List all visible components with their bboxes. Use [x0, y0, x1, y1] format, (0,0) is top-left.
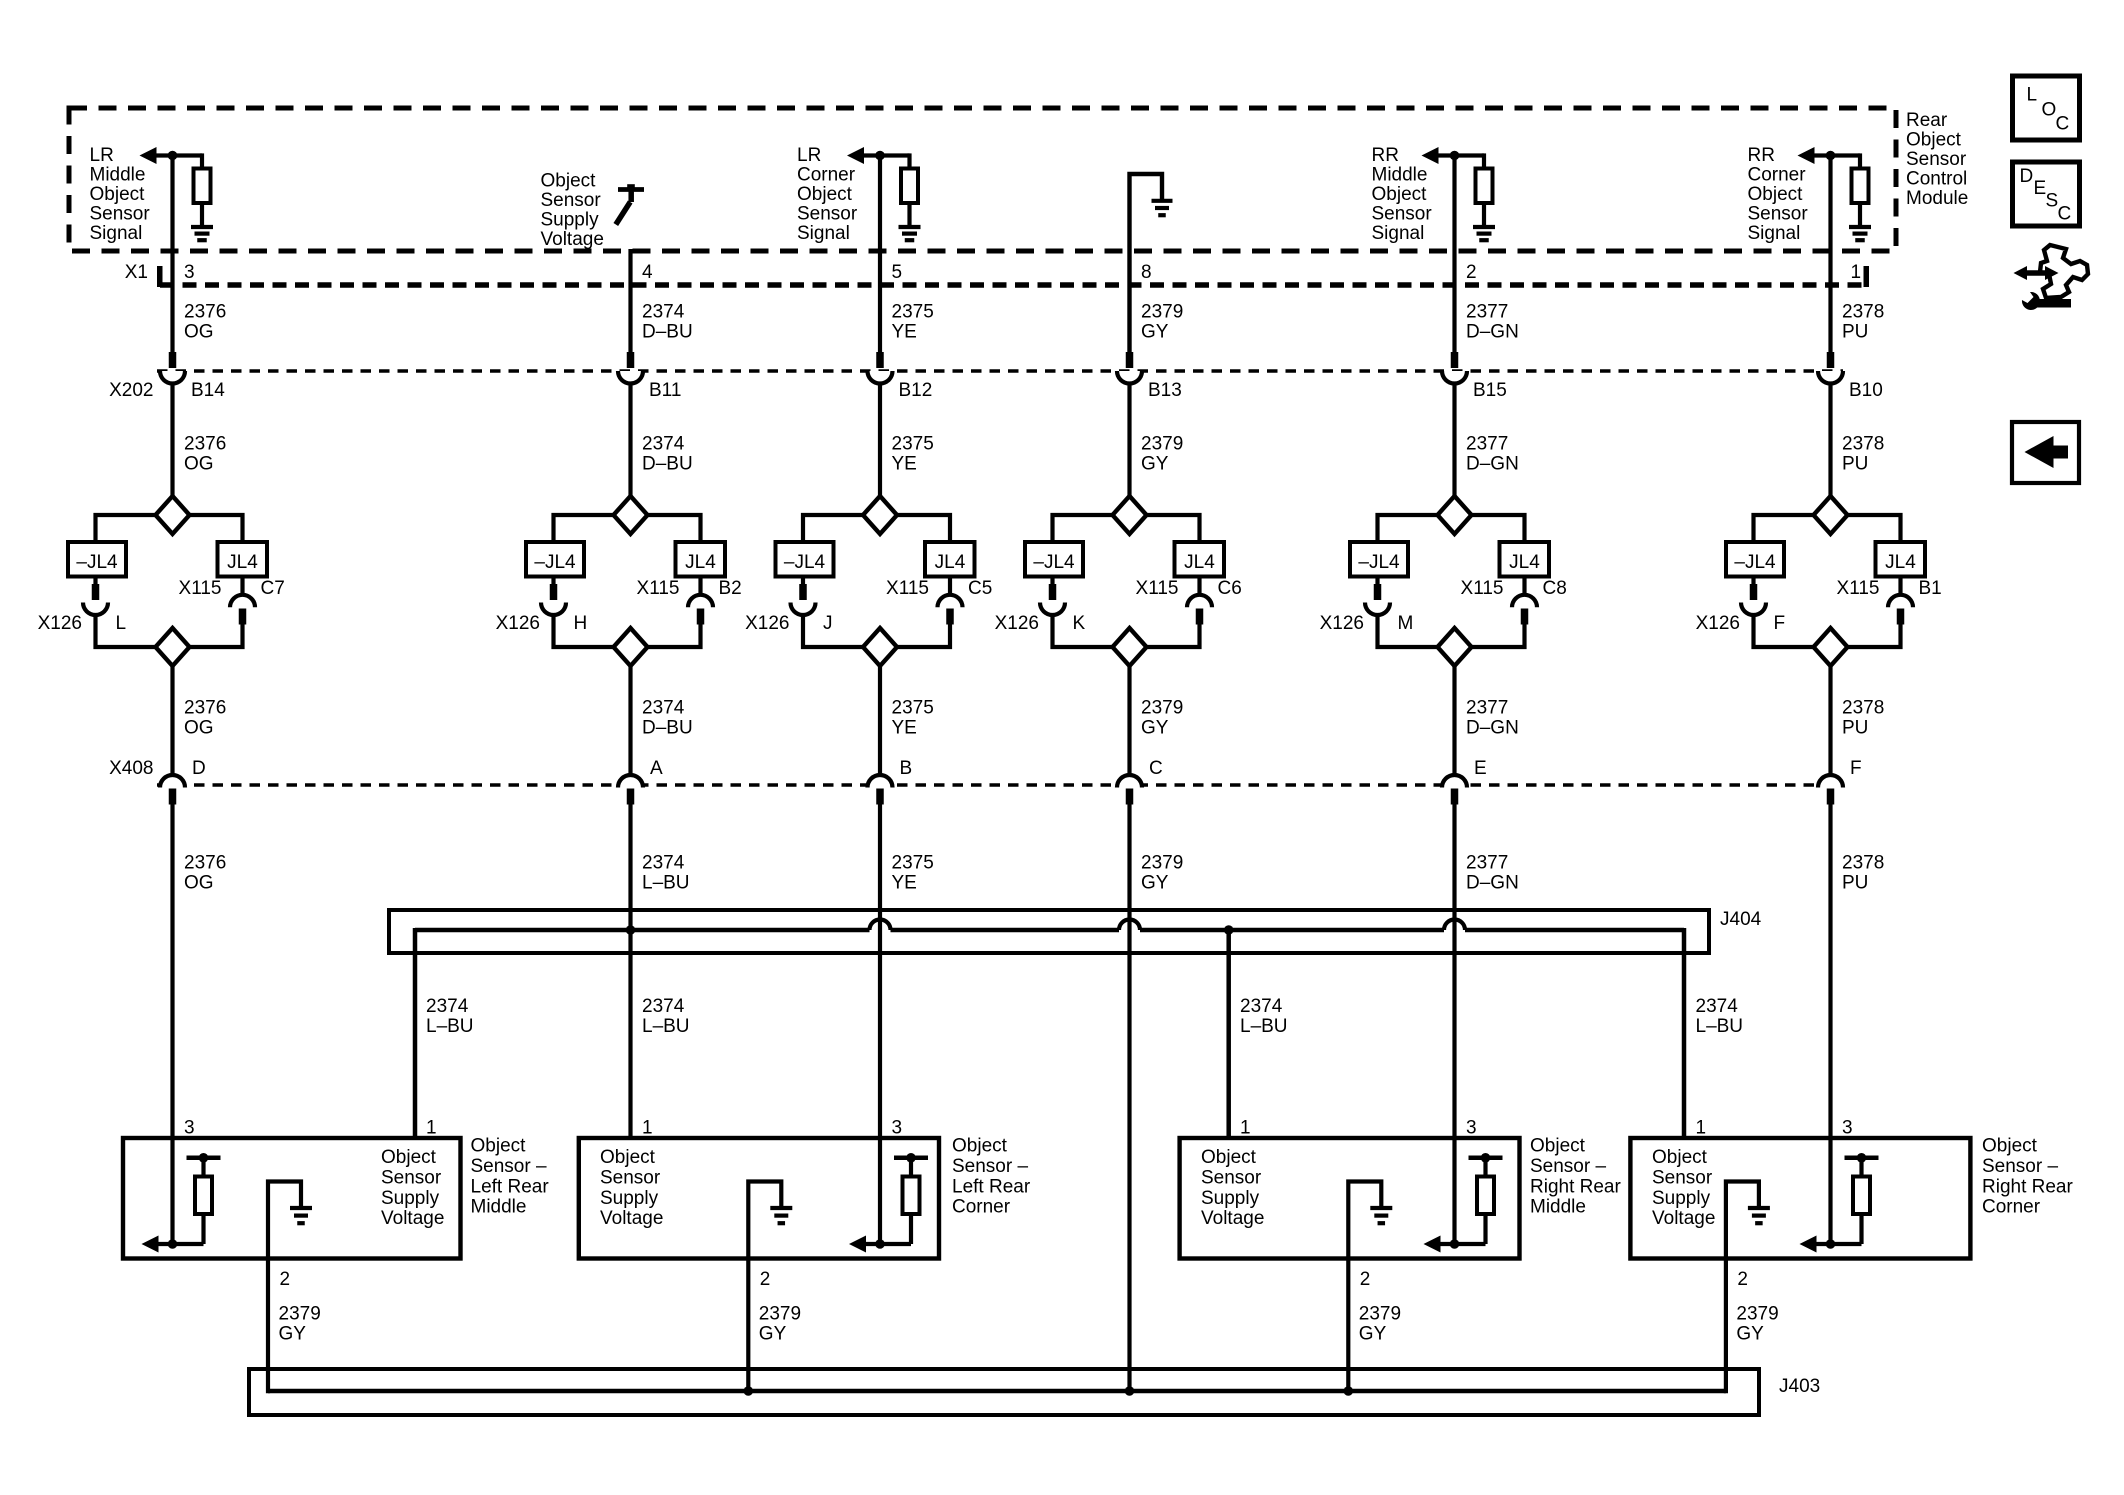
- svg-text:D: D: [192, 758, 206, 779]
- svg-text:–JL4: –JL4: [784, 552, 826, 573]
- svg-text:Signal: Signal: [797, 223, 850, 244]
- svg-text:LR: LR: [90, 145, 114, 166]
- svg-text:Middle: Middle: [1372, 165, 1428, 186]
- svg-text:C6: C6: [1218, 578, 1242, 599]
- svg-text:Middle: Middle: [90, 165, 146, 186]
- svg-text:Supply: Supply: [541, 210, 600, 231]
- svg-text:GY: GY: [1141, 322, 1169, 343]
- svg-text:B15: B15: [1473, 380, 1507, 401]
- svg-text:C7: C7: [261, 578, 285, 599]
- svg-text:2375: 2375: [892, 434, 934, 455]
- svg-text:Object: Object: [952, 1136, 1008, 1157]
- svg-text:J: J: [823, 613, 833, 634]
- svg-text:Signal: Signal: [1372, 223, 1425, 244]
- svg-text:Supply: Supply: [600, 1188, 659, 1209]
- svg-text:L–BU: L–BU: [1240, 1016, 1288, 1037]
- svg-text:–JL4: –JL4: [1734, 552, 1776, 573]
- svg-text:Sensor: Sensor: [1748, 204, 1809, 225]
- svg-text:D–GN: D–GN: [1466, 454, 1519, 475]
- svg-text:Corner: Corner: [1982, 1197, 2041, 1218]
- svg-text:Module: Module: [1906, 188, 1968, 209]
- svg-text:2374: 2374: [426, 996, 469, 1017]
- svg-text:JL4: JL4: [935, 552, 966, 573]
- svg-text:GY: GY: [1141, 454, 1169, 475]
- svg-text:E: E: [1474, 758, 1487, 779]
- svg-text:RR: RR: [1748, 145, 1775, 166]
- svg-text:X202: X202: [109, 380, 153, 401]
- svg-text:JL4: JL4: [1885, 552, 1916, 573]
- svg-text:Sensor: Sensor: [1652, 1167, 1713, 1188]
- svg-text:Object: Object: [600, 1147, 656, 1168]
- svg-text:Supply: Supply: [1201, 1188, 1260, 1209]
- svg-text:B: B: [900, 758, 913, 779]
- svg-text:Object: Object: [797, 184, 853, 205]
- svg-text:B1: B1: [1919, 578, 1942, 599]
- svg-text:4: 4: [642, 262, 653, 283]
- svg-text:Corner: Corner: [797, 165, 856, 186]
- svg-text:2378: 2378: [1842, 698, 1884, 719]
- svg-text:X126: X126: [745, 613, 789, 634]
- svg-text:F: F: [1774, 613, 1786, 634]
- svg-text:Supply: Supply: [381, 1188, 440, 1209]
- svg-text:H: H: [574, 613, 588, 634]
- svg-text:D–BU: D–BU: [642, 718, 693, 739]
- svg-text:D–BU: D–BU: [642, 454, 693, 475]
- svg-text:2374: 2374: [642, 698, 685, 719]
- svg-text:X126: X126: [1696, 613, 1740, 634]
- svg-text:2379: 2379: [1141, 302, 1183, 323]
- svg-text:C: C: [1149, 758, 1163, 779]
- svg-text:Sensor: Sensor: [797, 204, 858, 225]
- svg-text:J403: J403: [1779, 1376, 1820, 1397]
- svg-text:LR: LR: [797, 145, 821, 166]
- svg-text:Sensor –: Sensor –: [1982, 1156, 2058, 1177]
- svg-text:2374: 2374: [642, 853, 685, 874]
- svg-text:Sensor: Sensor: [381, 1167, 442, 1188]
- svg-text:S: S: [2046, 191, 2059, 212]
- svg-text:–JL4: –JL4: [1033, 552, 1075, 573]
- svg-text:E: E: [2034, 178, 2047, 199]
- svg-text:PU: PU: [1842, 718, 1868, 739]
- svg-text:2377: 2377: [1466, 434, 1508, 455]
- svg-text:Object: Object: [1201, 1147, 1257, 1168]
- svg-text:GY: GY: [279, 1324, 307, 1345]
- svg-text:OG: OG: [184, 873, 214, 894]
- svg-text:2376: 2376: [184, 302, 226, 323]
- svg-text:2379: 2379: [279, 1304, 321, 1325]
- svg-text:A: A: [650, 758, 663, 779]
- svg-text:OG: OG: [184, 454, 214, 475]
- svg-text:Left Rear: Left Rear: [952, 1176, 1031, 1197]
- svg-text:Signal: Signal: [90, 223, 143, 244]
- svg-text:X115: X115: [179, 578, 222, 599]
- svg-text:D–GN: D–GN: [1466, 718, 1519, 739]
- svg-text:Supply: Supply: [1652, 1188, 1711, 1209]
- svg-text:Object: Object: [381, 1147, 437, 1168]
- svg-text:O: O: [2042, 100, 2057, 121]
- svg-text:X115: X115: [1136, 578, 1179, 599]
- svg-text:Middle: Middle: [1530, 1197, 1586, 1218]
- svg-text:B12: B12: [899, 380, 933, 401]
- svg-text:D–GN: D–GN: [1466, 322, 1519, 343]
- svg-text:Right Rear: Right Rear: [1530, 1176, 1621, 1197]
- svg-text:Sensor: Sensor: [1201, 1167, 1262, 1188]
- svg-text:K: K: [1073, 613, 1086, 634]
- svg-text:Object: Object: [1982, 1136, 2038, 1157]
- svg-text:X115: X115: [1461, 578, 1504, 599]
- svg-text:YE: YE: [892, 322, 917, 343]
- svg-text:5: 5: [892, 262, 903, 283]
- svg-text:J404: J404: [1720, 909, 1762, 930]
- svg-text:M: M: [1398, 613, 1414, 634]
- svg-text:YE: YE: [892, 718, 917, 739]
- svg-text:2377: 2377: [1466, 302, 1508, 323]
- svg-text:RR: RR: [1372, 145, 1399, 166]
- svg-text:Object: Object: [1530, 1136, 1586, 1157]
- svg-text:Sensor: Sensor: [600, 1167, 661, 1188]
- svg-text:OG: OG: [184, 322, 214, 343]
- svg-text:X1: X1: [125, 262, 148, 283]
- svg-text:Voltage: Voltage: [1201, 1208, 1264, 1229]
- svg-text:3: 3: [1842, 1118, 1853, 1139]
- svg-text:B13: B13: [1148, 380, 1182, 401]
- svg-text:2374: 2374: [642, 434, 685, 455]
- svg-text:Object: Object: [1906, 130, 1962, 151]
- svg-text:YE: YE: [892, 454, 917, 475]
- svg-text:2: 2: [760, 1269, 771, 1290]
- svg-text:1: 1: [1851, 262, 1862, 283]
- svg-text:Signal: Signal: [1748, 223, 1801, 244]
- svg-text:2: 2: [1360, 1269, 1371, 1290]
- svg-text:C: C: [2058, 204, 2072, 225]
- svg-text:GY: GY: [1359, 1324, 1387, 1345]
- svg-text:Sensor: Sensor: [90, 204, 151, 225]
- svg-text:2: 2: [1737, 1269, 1748, 1290]
- svg-text:OG: OG: [184, 718, 214, 739]
- svg-text:2378: 2378: [1842, 302, 1884, 323]
- svg-text:C: C: [2056, 114, 2070, 135]
- svg-text:L–BU: L–BU: [426, 1016, 474, 1037]
- svg-text:GY: GY: [1141, 873, 1169, 894]
- svg-text:1: 1: [642, 1118, 653, 1139]
- svg-text:Voltage: Voltage: [1652, 1208, 1715, 1229]
- svg-text:GY: GY: [759, 1324, 787, 1345]
- svg-text:Object: Object: [471, 1136, 527, 1157]
- svg-text:JL4: JL4: [1509, 552, 1540, 573]
- svg-text:X126: X126: [38, 613, 82, 634]
- svg-text:B11: B11: [649, 380, 681, 401]
- svg-text:PU: PU: [1842, 322, 1868, 343]
- svg-text:JL4: JL4: [1184, 552, 1215, 573]
- svg-text:–JL4: –JL4: [1358, 552, 1400, 573]
- svg-text:2: 2: [280, 1269, 291, 1290]
- svg-text:8: 8: [1141, 262, 1152, 283]
- svg-text:3: 3: [892, 1118, 903, 1139]
- svg-text:Right Rear: Right Rear: [1982, 1176, 2073, 1197]
- svg-text:3: 3: [1466, 1118, 1477, 1139]
- svg-text:Sensor –: Sensor –: [1530, 1156, 1606, 1177]
- svg-text:2379: 2379: [1736, 1304, 1778, 1325]
- svg-text:Sensor: Sensor: [1906, 149, 1967, 170]
- svg-text:C8: C8: [1543, 578, 1567, 599]
- svg-text:3: 3: [184, 1118, 195, 1139]
- svg-text:Rear: Rear: [1906, 110, 1948, 131]
- svg-text:Left Rear: Left Rear: [471, 1176, 550, 1197]
- svg-text:PU: PU: [1842, 454, 1868, 475]
- svg-text:X126: X126: [995, 613, 1039, 634]
- svg-text:X115: X115: [637, 578, 680, 599]
- svg-text:2375: 2375: [892, 853, 934, 874]
- svg-text:3: 3: [184, 262, 195, 283]
- svg-text:2379: 2379: [1141, 698, 1183, 719]
- svg-text:C5: C5: [968, 578, 992, 599]
- svg-text:L: L: [2027, 85, 2038, 106]
- svg-text:GY: GY: [1736, 1324, 1764, 1345]
- svg-text:Middle: Middle: [471, 1197, 527, 1218]
- svg-text:Sensor: Sensor: [1372, 204, 1433, 225]
- svg-text:2379: 2379: [1141, 434, 1183, 455]
- svg-text:Object: Object: [1372, 184, 1428, 205]
- svg-text:2374: 2374: [642, 996, 685, 1017]
- svg-text:2377: 2377: [1466, 853, 1508, 874]
- svg-text:2378: 2378: [1842, 434, 1884, 455]
- svg-text:2374: 2374: [1240, 996, 1283, 1017]
- svg-text:2375: 2375: [892, 302, 934, 323]
- svg-text:2379: 2379: [759, 1304, 801, 1325]
- svg-text:F: F: [1850, 758, 1862, 779]
- svg-text:2: 2: [1466, 262, 1477, 283]
- svg-text:X408: X408: [109, 758, 153, 779]
- svg-text:–JL4: –JL4: [76, 552, 118, 573]
- svg-text:X126: X126: [496, 613, 540, 634]
- svg-text:1: 1: [1240, 1118, 1251, 1139]
- svg-text:Corner: Corner: [1748, 165, 1807, 186]
- svg-text:B2: B2: [719, 578, 742, 599]
- svg-text:L–BU: L–BU: [642, 873, 690, 894]
- svg-text:Sensor –: Sensor –: [471, 1156, 547, 1177]
- svg-text:Control: Control: [1906, 169, 1967, 190]
- svg-text:1: 1: [426, 1118, 437, 1139]
- svg-text:2376: 2376: [184, 698, 226, 719]
- svg-text:Object: Object: [90, 184, 146, 205]
- svg-text:L–BU: L–BU: [642, 1016, 690, 1037]
- svg-text:D–BU: D–BU: [642, 322, 693, 343]
- svg-text:PU: PU: [1842, 873, 1868, 894]
- svg-text:Voltage: Voltage: [600, 1208, 663, 1229]
- svg-text:2374: 2374: [1696, 996, 1739, 1017]
- svg-text:1: 1: [1696, 1118, 1707, 1139]
- svg-text:Voltage: Voltage: [381, 1208, 444, 1229]
- svg-text:L: L: [116, 613, 127, 634]
- svg-text:2379: 2379: [1141, 853, 1183, 874]
- svg-text:Object: Object: [541, 171, 597, 192]
- svg-text:Object: Object: [1748, 184, 1804, 205]
- svg-text:YE: YE: [892, 873, 917, 894]
- svg-text:2379: 2379: [1359, 1304, 1401, 1325]
- svg-text:Voltage: Voltage: [541, 229, 604, 250]
- svg-text:JL4: JL4: [685, 552, 716, 573]
- svg-text:2377: 2377: [1466, 698, 1508, 719]
- svg-text:B14: B14: [191, 380, 225, 401]
- svg-text:Sensor: Sensor: [541, 190, 602, 211]
- svg-text:2376: 2376: [184, 434, 226, 455]
- svg-text:D–GN: D–GN: [1466, 873, 1519, 894]
- svg-text:Corner: Corner: [952, 1197, 1011, 1218]
- svg-text:Sensor –: Sensor –: [952, 1156, 1028, 1177]
- svg-text:Object: Object: [1652, 1147, 1708, 1168]
- svg-text:D: D: [2020, 166, 2034, 187]
- svg-text:2378: 2378: [1842, 853, 1884, 874]
- svg-text:X126: X126: [1320, 613, 1364, 634]
- svg-text:X115: X115: [1837, 578, 1880, 599]
- svg-text:JL4: JL4: [227, 552, 258, 573]
- svg-text:–JL4: –JL4: [534, 552, 576, 573]
- svg-text:B10: B10: [1849, 380, 1883, 401]
- svg-text:2376: 2376: [184, 853, 226, 874]
- svg-text:2375: 2375: [892, 698, 934, 719]
- svg-text:L–BU: L–BU: [1696, 1016, 1744, 1037]
- svg-text:GY: GY: [1141, 718, 1169, 739]
- svg-text:2374: 2374: [642, 302, 685, 323]
- svg-text:X115: X115: [886, 578, 929, 599]
